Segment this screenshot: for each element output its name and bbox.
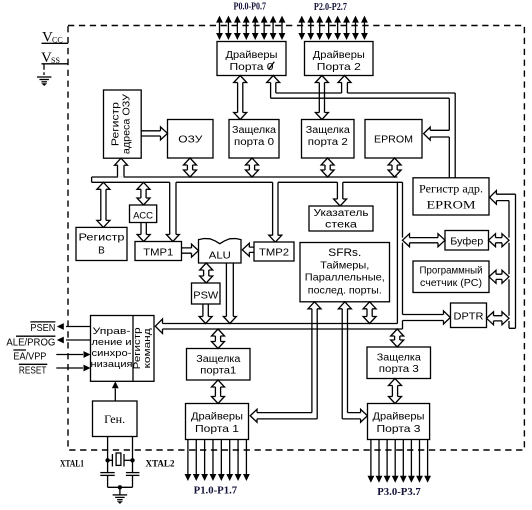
wire: port2 latch <-> bus [321, 158, 334, 177]
svg-text:Указатель: Указатель [314, 208, 369, 219]
block: TMP1 [135, 242, 182, 261]
pin RESET (overlined label, arrow in) [19, 364, 91, 376]
svg-text:P0.0-P0.7: P0.0-P0.7 [234, 1, 267, 13]
block: EPROM address register (Регистр адр. EPROM) [413, 178, 489, 215]
svg-text:Параллельные,: Параллельные, [305, 272, 385, 284]
wire: address to EPROM (arrow into EPROM right side) [424, 127, 450, 140]
svg-text:ОЗУ: ОЗУ [178, 134, 202, 146]
wire: ACC -> TMP1 [137, 223, 150, 242]
svg-text:Защелка: Защелка [306, 125, 350, 136]
port pins P1.0-P1.7 (output arrows) [185, 440, 250, 482]
svg-text:порта 0: порта 0 [234, 137, 275, 148]
label P1.0-P1.7 [194, 485, 238, 497]
svg-text:ление и: ление и [92, 337, 132, 348]
label P0.0-P0.7 [234, 1, 267, 13]
capacitor C1 [100, 473, 114, 476]
svg-text:EPROM: EPROM [427, 200, 476, 212]
svg-text:ТМР1: ТМР1 [143, 247, 173, 258]
net VCC label [42, 29, 69, 45]
wire: EPROM address register to port0/port2 drivers [267, 76, 456, 178]
bus: internal data bus to instruction register (hollow arrow) [155, 319, 402, 333]
block: program counter (Программный счетчик (РС)) [413, 261, 489, 293]
svg-text:XTAL1: XTAL1 [60, 460, 84, 470]
pin ALE/PROG (arrow out) [6, 336, 90, 348]
block: stack pointer (Указатель стека) [309, 206, 373, 231]
svg-text:послед. порты.: послед. порты. [308, 284, 382, 296]
svg-text:PSEN: PSEN [30, 323, 55, 334]
svg-text:В: В [98, 246, 105, 257]
svg-text:PSW: PSW [193, 290, 219, 301]
svg-text:адреса ОЗУ: адреса ОЗУ [122, 93, 133, 154]
wire: port2 drivers <-> port2 latch [315, 76, 328, 120]
svg-text:стека: стека [325, 220, 358, 231]
wire: bus -> TMP2 [269, 182, 282, 242]
wire VSS to ground (dashed) [43, 67, 45, 77]
pin EA/VPP (overlined EA, arrow in) [13, 350, 90, 363]
svg-text:АСС: АСС [133, 210, 154, 220]
block: port 3 drivers (Драйверы Порта 3) [368, 404, 430, 440]
svg-text:EA/VPP: EA/VPP [13, 352, 46, 363]
svg-text:P2.0-P2.7: P2.0-P2.7 [314, 1, 347, 13]
block: port 2 latch (Защелка порта 2) [302, 120, 355, 159]
wire: TMP1 -> ALU [182, 244, 199, 257]
block: port 0 latch (Защелка порта 0) [229, 120, 279, 159]
wire: oscillator to crystal (right leg XTAL2) [132, 437, 134, 488]
block: EPROM [365, 120, 422, 159]
svg-text:RESET: RESET [19, 366, 47, 377]
block: RAM (ОЗУ) [168, 120, 214, 159]
svg-text:EPROM: EPROM [374, 135, 413, 146]
port pins P0.0-P0.7 (bidirectional arrows) [216, 16, 285, 40]
chip boundary (dashed) [68, 26, 524, 451]
svg-text:команд: команд [142, 328, 153, 369]
svg-text:синхро-: синхро- [92, 348, 132, 359]
label XTAL1 [60, 460, 84, 470]
wire: bus/SFRs -> port1 drivers [250, 302, 321, 422]
svg-text:счетчик (РС): счетчик (РС) [420, 278, 482, 289]
junction dot XTAL1 [105, 458, 109, 462]
crystal Y1 [108, 453, 133, 467]
svg-text:Порта 3: Порта 3 [377, 423, 421, 435]
wire: PSW -> data bus [199, 304, 212, 324]
block: oscillator (Ген.) [93, 401, 138, 437]
wire: data bus <-> port3 latch [391, 329, 404, 347]
svg-text:порта 2: порта 2 [308, 137, 349, 148]
junction dot (crystal ground) [118, 485, 122, 489]
block: TMP2 [254, 242, 294, 261]
capacitor C2 [126, 473, 139, 476]
wire: port0 latch <-> bus [246, 158, 259, 177]
svg-text:Управ-: Управ- [93, 326, 131, 337]
svg-text:XTAL2: XTAL2 [146, 460, 175, 470]
svg-text:Защелка: Защелка [196, 354, 240, 365]
ground (VSS) [37, 77, 52, 86]
block: DPTR [451, 303, 487, 328]
wire: bus <-> register B [97, 182, 110, 227]
svg-text:Порта 2: Порта 2 [317, 61, 361, 73]
svg-text:Регистр: Регистр [111, 102, 122, 147]
wire: port0 drivers <-> port0 latch [234, 76, 247, 120]
wire: program counter <-> outer channel [489, 270, 509, 283]
block: control & sync unit + instruction register [91, 316, 155, 382]
wire: oscillator -> control unit [112, 381, 119, 401]
wire: RAM addr.reg -> RAM (hollow arrow) [141, 127, 167, 140]
svg-text:Ген.: Ген. [104, 414, 125, 426]
svg-text:Буфер: Буфер [450, 235, 483, 247]
wire: oscillator to crystal (left leg XTAL1) [107, 437, 109, 488]
svg-text:Программный: Программный [420, 265, 483, 276]
svg-text:ТМР2: ТМР2 [259, 248, 289, 259]
svg-text:Драйверы: Драйверы [373, 411, 425, 423]
block: ACC [130, 205, 157, 223]
wire: bus -> RAM address register [115, 158, 128, 178]
block: port 0 drivers (Драйверы порта 0) [217, 42, 286, 76]
wire: port1 latch <-> port1 drivers [212, 380, 225, 404]
label P2.0-P2.7 [314, 1, 347, 13]
block: port 1 drivers (Драйверы Порта 1) [186, 404, 249, 440]
wire: ALU <-> PSW [200, 263, 213, 283]
svg-text:Порта 0: Порта 0 [230, 61, 274, 73]
wire: crystal legs join [108, 486, 133, 488]
wire: channel -> EPROM address register (hollow arrow) [490, 191, 516, 205]
pin PSEN (overlined label, arrow out) [30, 322, 90, 334]
svg-text:Таймеры,: Таймеры, [320, 259, 369, 271]
label P3.0-P3.7 [377, 486, 421, 498]
wire: bus channel <-> buffer [403, 234, 446, 247]
svg-text:Защелка: Защелка [232, 125, 276, 136]
wire: port3 latch <-> port3 drivers [389, 379, 402, 404]
wire: bus <-> ACC [137, 182, 150, 205]
svg-text:Драйверы: Драйверы [313, 49, 365, 61]
wire: to ground [119, 487, 121, 495]
wire: DPTR <-> outer channel [487, 312, 510, 325]
wire: data bus <-> port1 latch [212, 329, 225, 349]
bus: right vertical channel [397, 182, 402, 329]
wire: bus -> TMP1 [166, 182, 179, 241]
svg-text:ALU: ALU [209, 250, 231, 262]
svg-text:ALE/PROG: ALE/PROG [6, 337, 55, 348]
wire: TMP2 -> ALU [242, 243, 254, 256]
svg-text:Защелка: Защелка [377, 353, 421, 364]
wire: EPROM <-> bus [388, 158, 401, 177]
bus: right outer channel [509, 194, 516, 328]
block: SFRs / timers / ports [300, 243, 390, 302]
svg-text:SFRs.: SFRs. [328, 247, 361, 259]
svg-text:порта 3: порта 3 [379, 364, 420, 375]
svg-text:порта1: порта1 [200, 366, 236, 377]
svg-text:P1.0-P1.7: P1.0-P1.7 [194, 485, 238, 497]
svg-text:P3.0-P3.7: P3.0-P3.7 [377, 486, 421, 498]
block: register B (Регистр В) [76, 227, 127, 260]
block: ALU [199, 239, 242, 264]
block: port 1 latch (Защелка порта1) [187, 349, 251, 381]
block: buffer (Буфер) [445, 231, 489, 251]
port pins P3.0-P3.7 (output arrows) [368, 440, 432, 483]
wire: buffer <-> outer channel [489, 234, 510, 247]
wire: bus -> stack pointer [334, 182, 347, 206]
svg-text:DPTR: DPTR [454, 311, 484, 322]
svg-text:Драйверы: Драйверы [226, 49, 278, 61]
block: RAM address register (Регистр адреса ОЗУ) [104, 90, 142, 158]
svg-text:Драйверы: Драйверы [191, 411, 243, 423]
block: port 3 latch (Защелка порта 3) [367, 347, 431, 379]
ground (crystal) [113, 495, 128, 504]
wire: ALU -> data bus [223, 263, 236, 324]
svg-text:Порта 1: Порта 1 [195, 423, 239, 435]
net VSS label [41, 50, 68, 67]
port pins P2.0-P2.7 (bidirectional arrows) [298, 16, 367, 40]
block: port 2 drivers (Драйверы порта 2) [305, 42, 374, 76]
svg-text:Регистр адр.: Регистр адр. [419, 184, 483, 196]
wire: RAM <-> bus [184, 158, 197, 177]
block: PSW [192, 283, 221, 304]
wire: SFRs <-> data bus [363, 302, 376, 324]
wire: bus/SFRs -> port3 drivers [338, 302, 367, 422]
svg-text:Регистр: Регистр [79, 233, 126, 244]
wire: data bus -> DPTR [403, 311, 451, 324]
bus: main internal bus (horizontal) [92, 177, 403, 182]
junction dot XTAL2 [130, 458, 134, 462]
svg-text:низация: низация [91, 359, 133, 370]
label XTAL2 [146, 460, 175, 470]
